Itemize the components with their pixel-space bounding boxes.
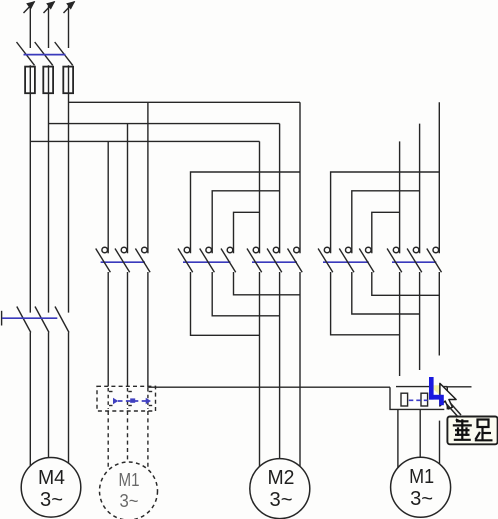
wire L2 drop from arrow to switch — [48, 6, 50, 48]
ghost base-point line (blue dashed with arrows) — [113, 398, 151, 404]
M1 crossover top rect 3 — [372, 212, 400, 253]
osnap aperture glow (pale yellow) — [433, 385, 441, 397]
contactor KM1R linkage (blue) — [392, 261, 436, 263]
wire L3 drop from arrow to switch — [68, 6, 70, 48]
M1 crossover top rect 2 — [352, 191, 420, 254]
QS2 switch for M4 branch — [2, 307, 69, 333]
wire phase3 vertical through fuse down to QS2 — [68, 65, 70, 312]
svg-text:M1: M1 — [119, 470, 140, 490]
tooltip box — [447, 417, 497, 445]
M1 thermal box top edge — [396, 386, 447, 388]
wire KM4 pole3 to thermal box — [147, 272, 149, 386]
motor M4 — [21, 458, 81, 518]
fuse FU1 — [25, 67, 35, 94]
M2 motor lead 3 — [299, 272, 301, 466]
svg-text:3~: 3~ — [410, 488, 433, 510]
motor M1 — [391, 457, 451, 517]
M1 merge link 1 — [331, 272, 400, 335]
supply arrow L2 — [44, 1, 56, 13]
M2 motor lead 2 — [279, 272, 281, 459]
mouse cursor — [440, 383, 456, 409]
M2 merge link 1 — [191, 272, 260, 335]
M1 feeder 2 from bus L2 — [419, 124, 421, 254]
wire right of cursor — [446, 386, 472, 388]
QS2 handle tick — [1, 311, 3, 326]
M2 crossover top rect 2 — [212, 191, 279, 254]
svg-text:3~: 3~ — [270, 489, 293, 511]
M1 lead 2 upper (interrupted by selection) — [419, 272, 421, 370]
contactor KM2R linkage (blue) — [252, 261, 297, 263]
M1 merge link 3 — [372, 272, 440, 295]
M1 feeder 1 from bus L3 — [399, 141, 401, 253]
svg-text:3~: 3~ — [40, 489, 63, 511]
ghost wires / heater hooks inside box (dashed) — [108, 388, 155, 409]
KM4 drop 3 from bus L1 — [147, 102, 149, 253]
ghost thermal relay box (dashed) — [97, 386, 156, 411]
M1 crossover top rect 1 — [331, 172, 440, 253]
M2 merge link 3 — [234, 272, 301, 295]
M2 feeder 3 from bus L1 — [299, 102, 301, 253]
svg-text:M2: M2 — [268, 467, 295, 489]
switch QS linkage (blue) — [24, 54, 66, 56]
wire phase2 vertical through fuse down to QS2 — [48, 65, 50, 312]
M2 feeder 2 from bus L2 — [279, 124, 281, 254]
svg-text:3~: 3~ — [120, 491, 139, 511]
QS2 blade 3 — [55, 307, 69, 333]
M1 thermal box left edge — [390, 387, 444, 409]
M2 branch — [191, 102, 301, 253]
ghost motor M1 circle (dashed) — [100, 462, 158, 519]
QS2 blade 1 — [17, 307, 31, 333]
char 垂 — [453, 419, 472, 440]
wire KM4 pole1 to thermal box — [107, 272, 109, 386]
QS2 linkage (blue) — [2, 317, 57, 319]
selected segment preview (blue dashes) — [409, 399, 428, 401]
M1 feeder 3 from bus L1 — [438, 102, 440, 253]
wire QS2 to motor M4 lead2 — [48, 333, 50, 458]
svg-text:M4: M4 — [38, 467, 65, 489]
M2 motor lead 1 — [259, 272, 261, 467]
M2 crossover top rect 1 — [191, 172, 301, 253]
M1 heater element 1 — [401, 393, 408, 406]
wire QS2 to motor M4 lead1 — [29, 333, 31, 466]
wire KM4 pole2 to thermal box — [127, 272, 129, 386]
M2 merge link 2 — [212, 272, 279, 316]
tooltip text 垂足 (drawn strokes) — [453, 419, 493, 440]
perpendicular osnap marker (blue) — [429, 377, 444, 405]
KM4 drop 2 from bus L2 — [127, 124, 129, 254]
KM4 drop 1 from bus L3 — [107, 141, 109, 253]
M1 thermal box right edge — [446, 387, 448, 410]
disconnect switch QS blade 3 — [55, 42, 73, 65]
contactor KM1F main contacts — [318, 247, 374, 272]
bus L2 horizontal — [49, 123, 280, 125]
M1 lead 3 upper (interrupted by selection) — [438, 272, 440, 356]
M1 motor lead 3 below box — [439, 421, 441, 464]
disconnect switch QS blade 1 — [17, 42, 35, 65]
wire QS2 to motor M4 lead3 — [68, 333, 70, 464]
M1 motor lead 2 below box — [419, 409, 421, 457]
contactor KM2R main contacts — [247, 247, 302, 272]
bottom connection wire — [147, 387, 471, 468]
ghost motor label — [119, 470, 140, 511]
QS2 blade 2 — [35, 307, 49, 333]
M1 lead 1 upper (interrupted by selection) — [399, 272, 401, 376]
wire phase1 vertical through fuse down to QS2 — [29, 65, 31, 312]
tooltip leader (double line) — [447, 403, 461, 417]
supply arrow L1 — [24, 1, 36, 13]
motor M2 — [250, 459, 310, 519]
fuse FU2 — [43, 67, 53, 94]
char 足 — [475, 420, 493, 441]
ghost motor leads (dashed) — [108, 411, 148, 469]
supply arrow L3 — [64, 1, 76, 13]
bus L1 horizontal — [69, 101, 301, 103]
disconnect switch QS blade 2 — [35, 42, 53, 65]
M1 heater element 2 — [421, 393, 428, 406]
contactor KM2F main contacts — [178, 247, 236, 272]
contactor KM2F linkage (blue) — [183, 261, 231, 263]
M1 merge link 2 — [352, 272, 420, 314]
fuse FU3 — [63, 67, 73, 94]
M1 motor lead 1 below box — [397, 409, 399, 467]
wire L1 drop from arrow to switch — [29, 6, 31, 48]
wire bottom horizontal from ghost branch to M1 thermal box — [147, 386, 390, 388]
contactor KM1F linkage (blue) — [323, 261, 369, 263]
M2 feeder 1 from bus L3 — [259, 141, 261, 253]
svg-text:M1: M1 — [409, 466, 434, 488]
contactor KM4 main contacts — [96, 247, 150, 272]
contactor KM1R main contacts — [387, 247, 441, 272]
M1 branch (right) — [331, 102, 440, 253]
bus L3 horizontal — [30, 140, 259, 142]
contactor KM4 linkage (blue) — [101, 261, 145, 263]
M2 crossover top rect 3 — [234, 212, 260, 253]
